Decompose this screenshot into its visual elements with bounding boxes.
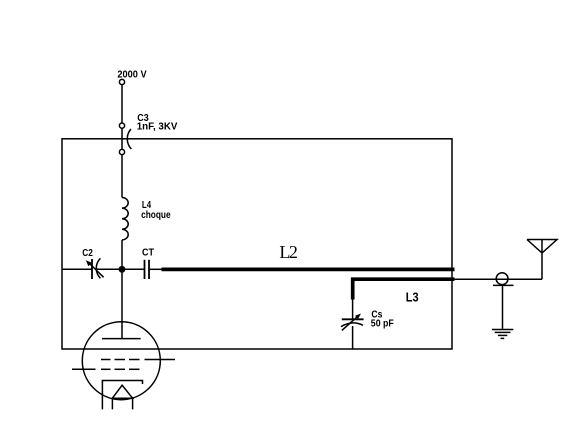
capacitor Cs variable [342, 318, 364, 320]
capacitor C3 [119, 123, 124, 128]
junction node [119, 267, 124, 272]
wire C3 to L4 [121, 155, 123, 198]
capacitor C2 variable [91, 259, 93, 279]
wire box right to antenna [455, 278, 543, 280]
svg-text:C2: C2 [82, 247, 93, 259]
wire Cs to box bottom [352, 326, 354, 349]
inductor L4 choke [122, 198, 128, 240]
tube control grid [72, 368, 140, 370]
connector shield bar [493, 284, 514, 286]
tube screen grid [101, 359, 175, 361]
svg-text:1nF, 3KV: 1nF, 3KV [137, 121, 178, 133]
wire 2000V to C3 [121, 85, 123, 124]
inductor L3 (link line) [353, 279, 455, 299]
inductor L2 (long line) [162, 267, 455, 271]
enclosure box [62, 139, 452, 349]
wire CT to L2 [149, 268, 162, 270]
svg-text:50 pF: 50 pF [371, 317, 394, 329]
connector J1 [496, 273, 508, 285]
tube filament [112, 385, 132, 398]
tube cathode [102, 381, 142, 410]
svg-text:CT: CT [142, 247, 154, 259]
svg-text:choque: choque [141, 209, 171, 221]
wire C2 to CT through junction [97, 268, 145, 270]
wire L3 to Cs [352, 300, 354, 319]
ground [492, 329, 514, 331]
wire box left to C2 [62, 268, 92, 270]
tube filament pins [111, 398, 113, 409]
terminal 2000V [119, 79, 124, 84]
tube anode plate [102, 338, 141, 340]
tube V1 envelope [82, 322, 160, 400]
capacitor CT [144, 260, 146, 279]
wire L4 to junction and down to tube anode [121, 240, 123, 339]
svg-text:L2: L2 [279, 242, 298, 262]
wire shield to ground [502, 285, 504, 328]
antenna [527, 240, 557, 280]
svg-text:L3: L3 [406, 290, 419, 305]
